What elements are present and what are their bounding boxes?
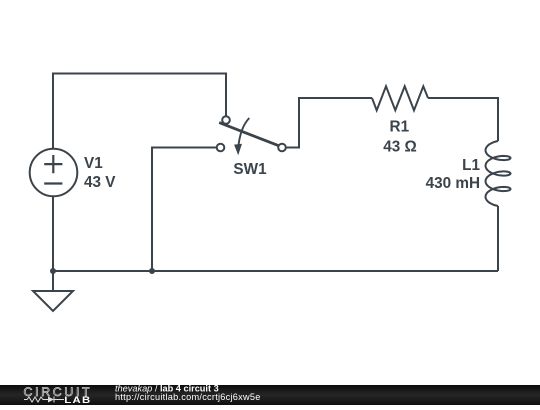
svg-text:LAB: LAB [64, 396, 91, 405]
labels [84, 119, 480, 192]
switch terminal left [217, 144, 225, 152]
resistor R1 [372, 86, 428, 110]
wire middle branch [152, 148, 217, 272]
inductor L1 coil [486, 141, 511, 206]
switch terminal right [278, 144, 286, 152]
svg-text:43 V: 43 V [84, 174, 116, 191]
svg-text:V1: V1 [84, 155, 103, 172]
svg-text:SW1: SW1 [233, 161, 267, 178]
svg-text:L1: L1 [462, 157, 480, 174]
svg-text:http://circuitlab.com/ccrtj6cj: http://circuitlab.com/ccrtj6cj6xw5e [115, 392, 261, 402]
switch arrow [239, 118, 250, 145]
wire switch right to resistor row [286, 98, 372, 148]
svg-text:430 mH: 430 mH [426, 175, 480, 192]
wire resistor to inductor [428, 98, 498, 141]
junction dot left [50, 268, 56, 274]
voltage source V1 [30, 149, 78, 197]
switch terminal top [222, 116, 230, 124]
svg-text:43 Ω: 43 Ω [383, 139, 417, 156]
wire bottom rail [53, 270, 498, 272]
switch blade [219, 123, 279, 146]
switch SW1 [217, 116, 286, 155]
junction dot middle [149, 268, 155, 274]
wire inductor bottom [497, 206, 499, 271]
logo resistor-diode glyph [24, 397, 64, 403]
wire V1 bottom [52, 197, 54, 272]
svg-text:R1: R1 [390, 119, 410, 136]
ground [33, 271, 73, 311]
wire top rail [53, 74, 226, 149]
